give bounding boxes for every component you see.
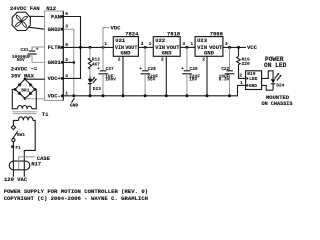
svg-text:3: 3 xyxy=(182,41,185,47)
svg-text:2: 2 xyxy=(118,57,121,63)
svg-text:3: 3 xyxy=(141,41,144,47)
connector N12 xyxy=(45,5,69,100)
svg-text:+: + xyxy=(36,47,39,52)
svg-text:24VDC FAN: 24VDC FAN xyxy=(10,5,40,12)
ground rail xyxy=(63,85,245,95)
svg-text:N19: N19 xyxy=(247,71,256,77)
fuse F1 xyxy=(11,145,21,151)
wire U22 gnd xyxy=(165,56,167,96)
capacitor C22 xyxy=(219,47,235,95)
node C27/VDC on rail xyxy=(102,46,105,49)
wire SW1 to fuse xyxy=(12,142,14,162)
svg-text:1: 1 xyxy=(104,41,107,47)
wire U21 out xyxy=(138,46,153,48)
label MOUNTED ON CHASSIS xyxy=(262,94,294,107)
svg-text:2: 2 xyxy=(239,73,242,79)
wire GND2 pin down to ground rail xyxy=(63,29,74,96)
wire U23 gnd xyxy=(206,56,208,96)
svg-text:3: 3 xyxy=(225,41,228,47)
wire FAN pin to VDC rail xyxy=(63,17,80,48)
capacitor C27 xyxy=(97,47,116,95)
svg-text:U21: U21 xyxy=(115,37,126,44)
svg-text:18V: 18V xyxy=(189,76,197,82)
capacitor C31 xyxy=(12,47,45,63)
svg-text:+: + xyxy=(139,67,142,72)
svg-text:+: + xyxy=(97,67,100,72)
capacitor C29 xyxy=(181,47,200,95)
svg-text:C27: C27 xyxy=(106,66,114,72)
wire BR1+ to VDC+ xyxy=(25,78,45,80)
node gnd U22 xyxy=(165,94,168,97)
net label VDC xyxy=(103,25,121,48)
svg-text:100V: 100V xyxy=(105,76,116,82)
svg-text:GND: GND xyxy=(162,50,173,57)
LED D23 xyxy=(88,77,101,96)
LED D24 xyxy=(271,73,285,90)
svg-text:GND: GND xyxy=(121,50,132,57)
svg-text:2: 2 xyxy=(161,57,164,63)
svg-text:50V: 50V xyxy=(17,57,25,63)
wire BR1- to VDC- xyxy=(25,98,45,100)
svg-text:COPYRIGHT (C) 2004-2006 - WAYN: COPYRIGHT (C) 2004-2006 - WAYNE C. GRAML… xyxy=(4,195,148,202)
capacitor C28 xyxy=(139,47,158,95)
wire fan- to N12 GND2 xyxy=(29,27,45,29)
node gnd GND2 xyxy=(72,94,75,97)
svg-text:VCC: VCC xyxy=(247,44,258,51)
regulator U21 7824 xyxy=(104,30,143,62)
node gnd U23 xyxy=(206,94,209,97)
wire VDC rail (FLTR) xyxy=(63,46,113,48)
wire case prong xyxy=(19,155,51,169)
svg-text:GND1: GND1 xyxy=(48,59,62,66)
label 35V MAX xyxy=(11,72,35,79)
node fan/VDC+ on rail xyxy=(79,46,82,49)
svg-text:ON CHASSIS: ON CHASSIS xyxy=(262,100,294,107)
svg-text:F1: F1 xyxy=(15,145,21,151)
svg-text:GND2: GND2 xyxy=(48,26,61,33)
node gnd U21 xyxy=(122,94,125,97)
wire VDC+ pin up to rail xyxy=(63,47,80,78)
wire N19 to LED anode xyxy=(262,71,274,80)
node C29 xyxy=(185,46,188,49)
label 24VDC FAN xyxy=(10,5,40,12)
svg-text:6.3V: 6.3V xyxy=(219,76,230,82)
svg-text:C22: C22 xyxy=(221,66,229,72)
svg-text:FAN: FAN xyxy=(51,13,61,20)
svg-text:D24: D24 xyxy=(276,83,284,89)
regulator U23 7908 xyxy=(190,30,228,62)
label 24VDC xyxy=(11,66,38,73)
regulator U22 7818 xyxy=(149,30,186,62)
wire plug prong right xyxy=(23,162,25,177)
resistor R12 xyxy=(88,47,100,76)
node gnd C27 xyxy=(102,94,105,97)
wire BR1 ac left xyxy=(12,89,17,108)
svg-text:FLTR: FLTR xyxy=(48,44,62,51)
wire U23 out to VCC xyxy=(223,46,246,48)
svg-text:SW1: SW1 xyxy=(17,132,25,138)
svg-text:POWER SUPPLY FOR MOTION CONTRO: POWER SUPPLY FOR MOTION CONTROLLER (REV.… xyxy=(4,188,148,195)
svg-text:CASE: CASE xyxy=(37,155,51,162)
svg-text:GND: GND xyxy=(249,83,258,89)
node gnd C29 xyxy=(185,94,188,97)
node GND1/GND2 xyxy=(73,61,76,64)
svg-text:35V MAX: 35V MAX xyxy=(11,72,35,79)
svg-text:GND: GND xyxy=(204,50,215,57)
svg-text:VDC-: VDC- xyxy=(48,93,61,100)
wire GND1 pin xyxy=(63,61,74,63)
node R19 xyxy=(237,46,240,49)
node C22 xyxy=(228,46,231,49)
node gnd C22 xyxy=(228,94,231,97)
svg-text:VDC+: VDC+ xyxy=(48,75,62,82)
svg-text:GND: GND xyxy=(70,102,79,108)
svg-text:D23: D23 xyxy=(93,86,101,92)
ground symbol xyxy=(70,98,79,108)
wire N19 gnd to LED cathode xyxy=(262,85,274,90)
label POWER ON LED xyxy=(264,56,287,69)
title line 1 xyxy=(4,188,148,195)
svg-text:220: 220 xyxy=(242,61,250,67)
node R12 on rail xyxy=(89,46,92,49)
plug N17 xyxy=(9,161,41,170)
label 120 VAC xyxy=(4,176,28,183)
svg-text:VDC: VDC xyxy=(111,25,122,32)
svg-text:2: 2 xyxy=(202,57,205,63)
svg-text:35V: 35V xyxy=(147,76,155,82)
connector N19 xyxy=(239,71,261,90)
resistor R19 xyxy=(237,47,250,78)
wire fan+ to N12 FAN xyxy=(29,15,44,17)
fan M1 xyxy=(12,12,30,30)
svg-text:C28: C28 xyxy=(148,66,156,72)
svg-text:LED: LED xyxy=(249,76,258,82)
svg-text:1: 1 xyxy=(240,80,243,86)
svg-text:1: 1 xyxy=(149,41,152,47)
wire T1 primary right xyxy=(24,120,35,161)
wire BR1 ac right xyxy=(32,89,37,108)
svg-text:C29: C29 xyxy=(190,66,198,72)
svg-text:BR1: BR1 xyxy=(21,87,29,93)
svg-text:T1: T1 xyxy=(42,111,49,118)
node gnd D23 xyxy=(89,94,92,97)
svg-text:120 VAC: 120 VAC xyxy=(4,176,28,183)
wire U21 gnd xyxy=(122,56,124,96)
node C28 xyxy=(144,46,147,49)
svg-text:ON LED: ON LED xyxy=(264,62,287,69)
svg-text:1: 1 xyxy=(190,41,193,47)
bridge rectifier BR1 xyxy=(14,78,37,100)
transformer T1 xyxy=(13,106,49,121)
svg-text:+: + xyxy=(181,67,184,72)
node gnd C28 xyxy=(144,94,147,97)
switch SW1 xyxy=(11,125,25,141)
wire U22 out xyxy=(180,46,195,48)
net label VCC xyxy=(247,44,258,51)
wire plug prong left xyxy=(12,162,14,177)
title line 2 xyxy=(4,195,148,202)
svg-text:C31: C31 xyxy=(20,47,28,53)
wire T1 primary left xyxy=(13,120,18,125)
